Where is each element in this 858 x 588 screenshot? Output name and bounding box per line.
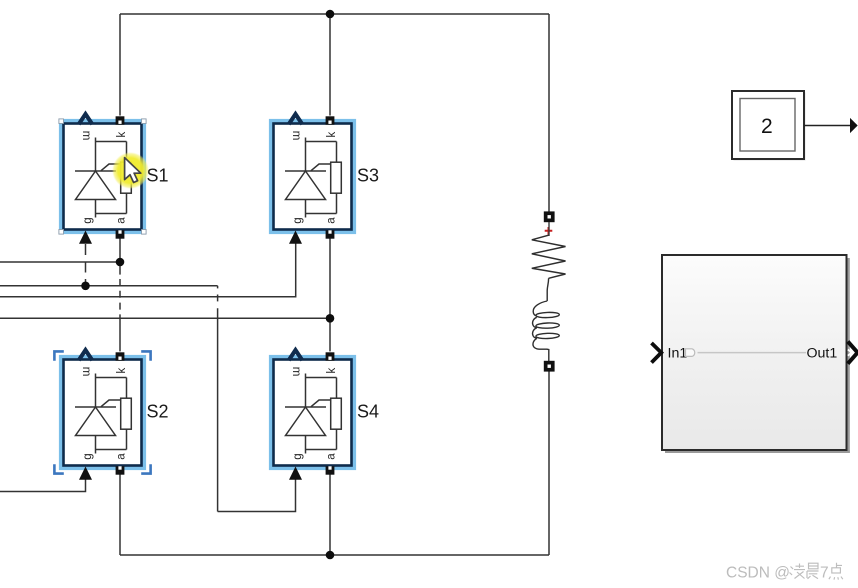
thyristor S2 — [59, 350, 146, 480]
node D junction — [326, 314, 335, 323]
wire A gate bus 1 — [0, 261, 120, 263]
node bottom junction — [326, 551, 335, 560]
wire RL bottom drop — [548, 372, 550, 556]
watermark glyph chen — [807, 563, 819, 579]
subsystem block shadow — [847, 258, 850, 453]
subsystem input chevron — [652, 343, 662, 363]
cursor highlight circle — [112, 152, 149, 189]
constant block outer frame — [732, 91, 804, 159]
wire B to S4 gate — [218, 478, 296, 512]
watermark glyph dian — [829, 563, 843, 580]
wire S3.a to node D — [329, 238, 331, 319]
thyristor S4 — [269, 350, 356, 480]
wire B down segment — [217, 286, 219, 289]
subsystem preview port tab — [686, 349, 695, 357]
svg-text:S1: S1 — [147, 166, 169, 186]
subsystem preview signal line — [698, 352, 807, 354]
subsystem block — [662, 255, 847, 450]
node B junction — [81, 282, 90, 291]
wire S1.g dashed — [85, 244, 87, 286]
constant output arrowhead — [850, 118, 858, 133]
wire B gate bus 2 — [0, 285, 218, 287]
svg-text:Out1: Out1 — [807, 346, 838, 362]
RL plus polarity mark — [545, 227, 553, 235]
node A junction — [116, 258, 125, 267]
svg-text:In1: In1 — [668, 346, 688, 362]
wire S4.a drop — [329, 474, 331, 555]
watermark CSDN — [726, 565, 829, 582]
mouse cursor — [125, 158, 141, 183]
subsystem output chevron — [848, 342, 858, 364]
RL branch top port — [544, 211, 555, 222]
constant output signal wire — [804, 125, 851, 127]
constant block shadow — [734, 93, 806, 161]
svg-text:2: 2 — [761, 115, 773, 138]
wire node A to S2.k dashed — [119, 262, 121, 275]
svg-text:S3: S3 — [357, 166, 379, 186]
wire S3 k drop — [329, 14, 331, 116]
node top junction — [326, 10, 335, 19]
wire node D to S4.k — [329, 318, 331, 351]
thyristor S1 — [59, 114, 146, 244]
wire S1.a to node A — [119, 238, 121, 262]
S2 selection brackets — [54, 351, 150, 473]
svg-text:S2: S2 — [147, 402, 169, 422]
svg-text:CSDN @: CSDN @ — [726, 565, 790, 582]
wire S2 gate — [0, 478, 86, 492]
wire port to resistor — [548, 222, 550, 236]
thyristor S3 — [269, 114, 356, 244]
wire bottom bus — [120, 554, 549, 556]
constant block inner frame — [740, 99, 795, 152]
RL branch bottom port — [544, 361, 555, 372]
wire RL top drop — [548, 14, 550, 212]
wire top bus S1.k to S3.k to RL+ — [120, 13, 549, 15]
inductor L (three loops) — [533, 301, 560, 361]
svg-text:7: 7 — [820, 565, 829, 582]
S1 selection handles — [59, 119, 146, 234]
wire S2.a to bottom bus — [119, 474, 121, 555]
svg-text:S4: S4 — [357, 402, 379, 422]
wire resistor to inductor — [547, 278, 548, 301]
wire D bus 4 — [0, 317, 330, 319]
wire S1 k drop — [119, 14, 121, 116]
resistor R (series RLC branch) — [532, 235, 566, 278]
wire C gate bus 3 to S3.g — [0, 242, 296, 297]
watermark glyph ling — [790, 564, 806, 579]
